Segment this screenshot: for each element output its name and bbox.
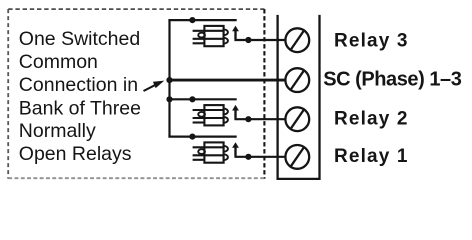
svg-text:Open Relays: Open Relays (19, 143, 132, 165)
junction dot: bus / SC line (166, 77, 172, 83)
junction dot: relay 3 terminal wire (245, 37, 251, 43)
relay coil K2 (193, 105, 228, 125)
relay bank enclosure: left side (dashed) (7, 9, 9, 179)
relay bank enclosure: right side (dashed) (263, 9, 265, 179)
svg-text:Common: Common (19, 51, 98, 73)
wire: switched common vertical bus (168, 20, 170, 137)
relay K1 NO contact arrow (232, 142, 239, 155)
relay K3 NO contact arrow (232, 26, 239, 39)
junction dot: relay 1 fixed line (189, 134, 195, 140)
svg-text:Connection in: Connection in (19, 74, 138, 96)
svg-text:SC (Phase) 1–3: SC (Phase) 1–3 (323, 68, 462, 90)
annotation text (19, 28, 141, 165)
svg-text:Normally: Normally (19, 120, 96, 142)
relay coil K1 (193, 142, 228, 162)
svg-text:Relay 1: Relay 1 (334, 146, 409, 167)
svg-text:One Switched: One Switched (19, 28, 140, 50)
wire: relay 3 contact to terminal (236, 31, 287, 40)
relay K2 NO contact arrow (232, 105, 239, 118)
screw terminal: Relay 3 (285, 28, 309, 52)
screw terminal: SC (Phase) (285, 68, 309, 92)
svg-text:Bank of Three: Bank of Three (19, 97, 141, 119)
svg-text:Relay 3: Relay 3 (334, 31, 409, 52)
relay bank enclosure: bottom side (gray dashed) (8, 177, 264, 179)
relay bank enclosure: top side (dashed) (8, 8, 264, 10)
annotation arrow pointing to common bus node (144, 81, 165, 91)
junction dot: relay 3 fixed line (189, 17, 195, 23)
junction dot: relay 1 terminal wire (245, 154, 251, 160)
wire: relay 1 contact to terminal (236, 147, 287, 157)
wire: relay 3 fixed contact line (168, 19, 236, 21)
wire: relay 2 contact to terminal (236, 110, 287, 119)
junction dot: relay 2 terminal wire (245, 116, 251, 122)
svg-text:Relay 2: Relay 2 (334, 108, 409, 129)
relay coil K3 (193, 26, 228, 46)
junction dot: relay 2 fixed line (189, 96, 195, 102)
wire: relay 1 fixed contact line (168, 136, 236, 138)
terminal strip body (open top) (278, 15, 320, 179)
screw terminal: Relay 1 (285, 145, 309, 169)
wire: relay 2 fixed contact line (168, 98, 236, 100)
junction dot: bus / relay 2 fixed line (166, 96, 172, 102)
wire: SC (phase) common to terminal (168, 79, 286, 82)
screw terminal: Relay 2 (285, 107, 309, 131)
